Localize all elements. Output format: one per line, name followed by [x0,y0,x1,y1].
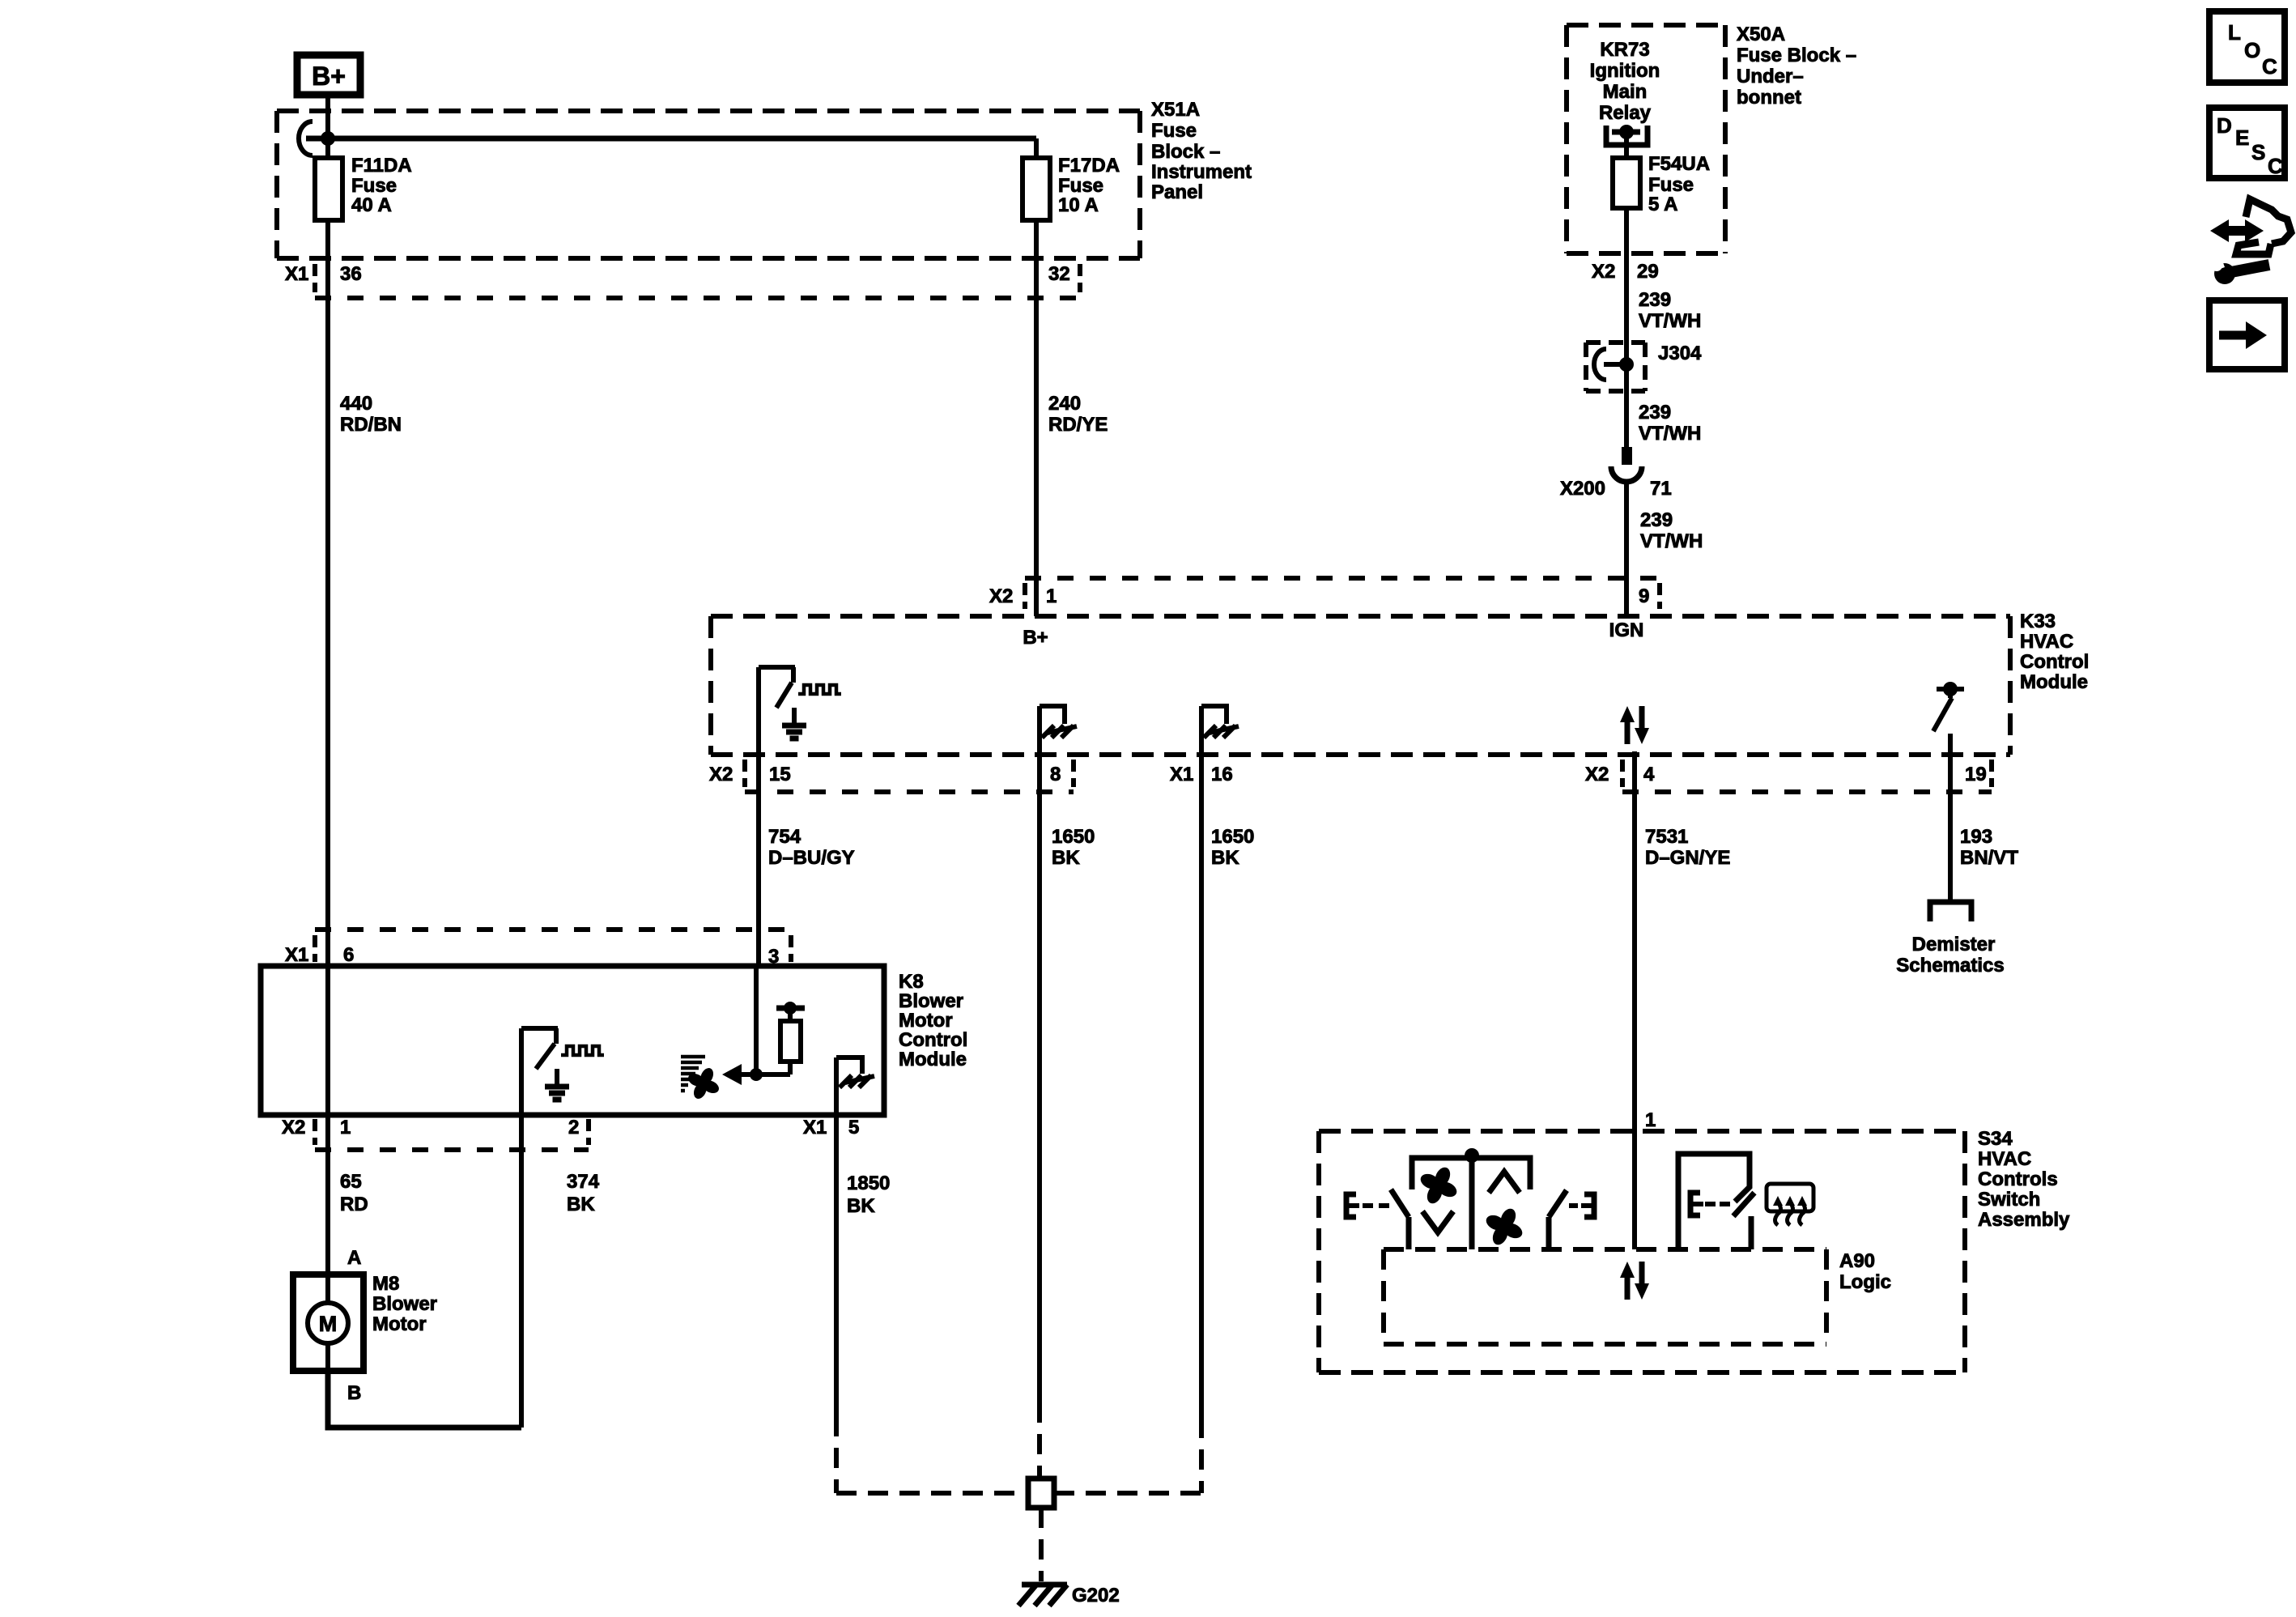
svg-text:bonnet: bonnet [1737,87,1801,109]
svg-text:F11DA: F11DA [351,155,412,177]
svg-text:VT/WH: VT/WH [1639,423,1701,445]
svg-text:Controls: Controls [1978,1168,2058,1190]
svg-text:BK: BK [1211,847,1239,869]
svg-text:X1: X1 [803,1117,827,1138]
svg-text:374: 374 [567,1171,600,1193]
svg-text:A: A [347,1247,361,1269]
svg-text:B+: B+ [1023,627,1048,649]
svg-text:Control: Control [2020,651,2089,673]
svg-text:K8: K8 [899,971,924,993]
svg-text:1850: 1850 [847,1172,890,1194]
svg-text:Fuse: Fuse [1151,120,1197,142]
svg-text:BN/VT: BN/VT [1960,847,2018,869]
svg-text:Motor: Motor [899,1010,953,1032]
svg-text:BK: BK [847,1195,875,1217]
svg-text:C: C [2262,54,2277,79]
svg-text:O: O [2244,38,2260,62]
svg-text:C: C [2268,154,2283,178]
svg-text:Under–: Under– [1737,66,1804,87]
svg-text:15: 15 [769,764,791,785]
svg-text:1: 1 [1645,1109,1656,1131]
svg-text:X2: X2 [282,1117,305,1138]
svg-text:RD/BN: RD/BN [340,414,402,436]
svg-text:X1: X1 [285,944,308,966]
svg-text:Fuse: Fuse [1648,174,1694,196]
svg-text:KR73: KR73 [1600,39,1649,61]
svg-text:239: 239 [1639,289,1671,311]
svg-text:Module: Module [899,1049,967,1070]
svg-text:Switch: Switch [1978,1189,2040,1211]
svg-text:1: 1 [340,1117,351,1138]
svg-text:RD/YE: RD/YE [1048,414,1108,436]
svg-text:754: 754 [768,826,801,848]
svg-text:X2: X2 [1592,261,1615,283]
svg-text:239: 239 [1640,509,1673,531]
svg-text:Instrument: Instrument [1151,161,1252,183]
svg-text:5 A: 5 A [1648,194,1677,215]
svg-text:19: 19 [1965,764,1987,785]
svg-text:X50A: X50A [1737,23,1785,45]
svg-text:Fuse Block –: Fuse Block – [1737,45,1856,66]
svg-text:Ignition: Ignition [1590,60,1660,82]
svg-text:1650: 1650 [1211,826,1254,848]
svg-text:Demister: Demister [1912,934,1996,955]
svg-text:HVAC: HVAC [1978,1148,2031,1170]
svg-text:K33: K33 [2020,611,2056,632]
svg-text:Logic: Logic [1839,1271,1891,1293]
svg-text:1650: 1650 [1052,826,1095,848]
svg-text:VT/WH: VT/WH [1639,310,1701,332]
svg-text:Schematics: Schematics [1896,955,2004,977]
svg-text:Main: Main [1603,81,1648,103]
svg-text:Blower: Blower [899,990,963,1012]
svg-text:X51A: X51A [1151,99,1200,121]
svg-text:X1: X1 [1170,764,1193,785]
svg-text:F54UA: F54UA [1648,153,1710,175]
svg-text:Panel: Panel [1151,181,1203,203]
svg-text:5: 5 [848,1117,859,1138]
svg-text:10 A: 10 A [1058,194,1099,216]
svg-text:F17DA: F17DA [1058,155,1120,177]
svg-text:E: E [2235,126,2249,150]
svg-text:X200: X200 [1560,478,1605,500]
svg-text:1: 1 [1046,585,1057,607]
svg-text:VT/WH: VT/WH [1640,530,1703,552]
svg-text:6: 6 [343,944,354,966]
svg-text:B: B [347,1382,361,1404]
svg-text:Motor: Motor [372,1313,427,1335]
svg-text:Module: Module [2020,671,2088,693]
svg-text:40 A: 40 A [351,194,392,216]
svg-text:440: 440 [340,393,372,415]
svg-text:240: 240 [1048,393,1081,415]
svg-text:S: S [2251,140,2265,164]
svg-text:L: L [2228,20,2241,45]
svg-text:D: D [2217,113,2232,138]
svg-text:8: 8 [1050,764,1061,785]
svg-text:Blower: Blower [372,1293,437,1315]
svg-text:193: 193 [1960,826,1992,848]
svg-text:29: 29 [1637,261,1659,283]
svg-text:D–BU/GY: D–BU/GY [768,847,855,869]
svg-text:D–GN/YE: D–GN/YE [1645,847,1730,869]
svg-text:36: 36 [340,263,362,285]
svg-text:32: 32 [1048,263,1070,285]
svg-text:X2: X2 [709,764,733,785]
svg-text:X1: X1 [285,263,308,285]
svg-text:RD: RD [340,1194,368,1215]
svg-text:Block –: Block – [1151,141,1220,163]
svg-text:A90: A90 [1839,1250,1875,1272]
svg-text:239: 239 [1639,402,1671,423]
svg-text:Relay: Relay [1599,102,1652,124]
svg-text:Fuse: Fuse [351,175,397,197]
svg-text:65: 65 [340,1171,362,1193]
svg-text:HVAC: HVAC [2020,631,2073,653]
svg-text:BK: BK [1052,847,1080,869]
svg-text:4: 4 [1643,764,1655,785]
svg-text:7531: 7531 [1645,826,1688,848]
svg-text:BK: BK [567,1194,595,1215]
svg-text:IGN: IGN [1609,619,1644,641]
svg-text:S34: S34 [1978,1128,2013,1150]
svg-text:Control: Control [899,1029,967,1051]
svg-text:9: 9 [1639,585,1649,607]
svg-text:M8: M8 [372,1273,399,1295]
svg-text:B+: B+ [312,62,346,91]
svg-text:71: 71 [1650,478,1672,500]
svg-text:Fuse: Fuse [1058,175,1103,197]
svg-text:2: 2 [568,1117,579,1138]
svg-text:J304: J304 [1658,343,1702,364]
svg-text:16: 16 [1211,764,1233,785]
svg-text:M: M [319,1312,338,1336]
svg-text:X2: X2 [1585,764,1609,785]
svg-text:Assembly: Assembly [1978,1209,2070,1231]
svg-text:X2: X2 [989,585,1013,607]
svg-text:G202: G202 [1072,1585,1120,1606]
